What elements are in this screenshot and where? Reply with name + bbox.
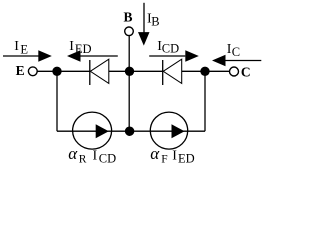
svg-text:B: B (151, 15, 159, 29)
diode D1 cathode bar (89, 60, 91, 85)
wire: left vertical E-junction down to bottom bus (56, 71, 58, 131)
terminal B open circle (125, 27, 134, 36)
current arrow IED head (67, 50, 81, 61)
wire: top bus left diode to right diode bar (through base node) (109, 70, 163, 72)
junction dot at C column / top bus (200, 67, 209, 76)
current arrow IE head (38, 50, 52, 61)
svg-text:ED: ED (75, 42, 92, 56)
wire: B terminal down to base node (128, 36, 130, 72)
terminal C open circle (230, 67, 239, 76)
junction dot at base column / bottom bus (125, 126, 135, 136)
wire: top bus E-junction to left diode bar (37, 70, 90, 72)
svg-text:E: E (20, 42, 28, 56)
current source aF IED arrowhead (172, 124, 185, 138)
svg-text:C: C (241, 64, 251, 79)
current source aR ICD circle (73, 112, 112, 149)
wire: top bus right diode to C terminal (182, 70, 230, 72)
current source aR ICD arrowhead (96, 124, 109, 138)
current arrow IC head (212, 55, 226, 66)
current arrow IE line (3, 55, 40, 57)
wire: right vertical C-junction down to bottom bus (204, 71, 206, 131)
svg-text:CD: CD (162, 42, 179, 56)
svg-text:I: I (93, 149, 98, 164)
svg-text:C: C (232, 45, 240, 59)
current arrow ICD line (149, 55, 185, 57)
diode D2 (base-collector) triangle (163, 59, 182, 83)
current arrow IED line (81, 55, 118, 57)
svg-text:I: I (172, 149, 177, 164)
svg-text:CD: CD (99, 151, 116, 165)
current source aF IED circle (150, 112, 187, 149)
svg-text:R: R (79, 153, 87, 165)
svg-text:E: E (16, 63, 25, 78)
svg-text:ED: ED (178, 151, 195, 165)
wire: base node down to bottom bus (128, 71, 130, 131)
diode D1 (base-emitter) triangle (90, 59, 109, 83)
current arrow IB line (143, 3, 145, 33)
svg-text:B: B (124, 10, 133, 25)
diode D2 cathode bar (162, 60, 164, 85)
terminal E open circle (28, 67, 37, 76)
svg-text:α: α (150, 144, 160, 163)
wire: bottom bus (57, 130, 205, 132)
junction dot at E column / top bus (52, 67, 61, 76)
svg-text:I: I (69, 39, 74, 54)
svg-text:I: I (14, 39, 19, 54)
current arrow ICD head (185, 50, 199, 61)
current arrow IC line (226, 60, 262, 62)
svg-text:F: F (161, 153, 167, 165)
current arrow IB head (138, 32, 150, 46)
svg-text:α: α (68, 144, 78, 163)
junction dot at base node / top bus (125, 67, 134, 76)
